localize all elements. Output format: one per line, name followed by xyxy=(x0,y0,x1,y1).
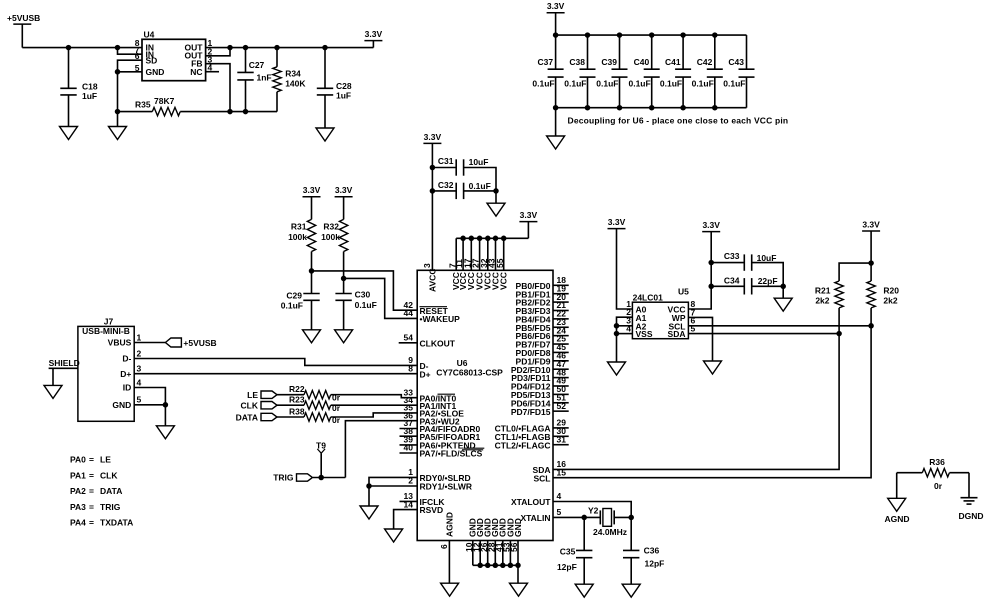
svg-text:0.1uF: 0.1uF xyxy=(660,79,682,89)
svg-text:XTALIN: XTALIN xyxy=(520,513,550,523)
svg-text:USB-MINI-B: USB-MINI-B xyxy=(82,326,130,336)
svg-text:1: 1 xyxy=(137,332,142,342)
svg-text:3.3V: 3.3V xyxy=(335,185,353,195)
svg-text:J7: J7 xyxy=(104,317,114,327)
svg-text:C30: C30 xyxy=(355,290,371,300)
svg-text:DATA: DATA xyxy=(236,412,258,422)
svg-text:1uF: 1uF xyxy=(336,90,351,100)
svg-text:GND: GND xyxy=(146,67,165,77)
svg-text:0.1uF: 0.1uF xyxy=(469,181,491,191)
svg-text:AGND: AGND xyxy=(884,514,909,524)
svg-text:PD7/FD15: PD7/FD15 xyxy=(511,407,551,417)
svg-text:4: 4 xyxy=(208,62,213,72)
svg-text:0r: 0r xyxy=(934,481,943,491)
svg-text:AVCC: AVCC xyxy=(427,269,437,292)
svg-text:6: 6 xyxy=(439,544,449,549)
svg-text:R22: R22 xyxy=(289,384,305,394)
svg-text:DATA: DATA xyxy=(100,486,122,496)
svg-text:•WAKEUP: •WAKEUP xyxy=(420,314,461,324)
svg-text:3.3V: 3.3V xyxy=(424,132,442,142)
svg-text:0.1uF: 0.1uF xyxy=(723,79,745,89)
svg-text:C31: C31 xyxy=(438,156,454,166)
svg-text:5: 5 xyxy=(557,507,562,517)
svg-text:0.1uF: 0.1uF xyxy=(532,79,554,89)
svg-text:R23: R23 xyxy=(289,395,305,405)
svg-text:VSS: VSS xyxy=(636,329,653,339)
svg-text:0.1uF: 0.1uF xyxy=(355,300,377,310)
svg-text:0.1uF: 0.1uF xyxy=(692,79,714,89)
svg-text:0.1uF: 0.1uF xyxy=(281,301,303,311)
svg-text:=: = xyxy=(89,470,94,480)
svg-text:3: 3 xyxy=(137,364,142,374)
svg-text:AGND: AGND xyxy=(444,512,454,537)
svg-text:RDY1/•SLWR: RDY1/•SLWR xyxy=(420,482,473,492)
svg-text:Decoupling for U6 - place one: Decoupling for U6 - place one close to e… xyxy=(568,116,789,126)
svg-text:CTL2/•FLAGC: CTL2/•FLAGC xyxy=(495,440,551,450)
svg-text:GND: GND xyxy=(513,518,523,537)
svg-text:C36: C36 xyxy=(644,546,660,556)
svg-text:TRIG: TRIG xyxy=(100,502,121,512)
svg-text:55: 55 xyxy=(495,258,505,268)
svg-text:TXDATA: TXDATA xyxy=(100,518,133,528)
svg-text:LE: LE xyxy=(100,455,111,465)
svg-text:3.3V: 3.3V xyxy=(547,1,565,11)
svg-text:+5VUSB: +5VUSB xyxy=(183,338,216,348)
svg-text:R35: R35 xyxy=(135,100,151,110)
svg-text:CLKOUT: CLKOUT xyxy=(420,338,456,348)
svg-text:LE: LE xyxy=(247,390,258,400)
svg-text:C40: C40 xyxy=(634,57,650,67)
svg-text:56: 56 xyxy=(509,542,519,552)
svg-text:3.3V: 3.3V xyxy=(702,220,720,230)
svg-text:C32: C32 xyxy=(438,180,454,190)
svg-text:5: 5 xyxy=(135,63,140,73)
svg-text:CY7C68013-CSP: CY7C68013-CSP xyxy=(436,368,503,378)
svg-text:78K7: 78K7 xyxy=(154,96,175,106)
svg-text:100k: 100k xyxy=(321,232,340,242)
svg-text:100k: 100k xyxy=(288,232,307,242)
svg-text:R36: R36 xyxy=(929,457,945,467)
svg-text:U4: U4 xyxy=(144,30,155,40)
svg-text:3.3V: 3.3V xyxy=(365,29,383,39)
svg-text:6: 6 xyxy=(135,51,140,61)
svg-text:GND: GND xyxy=(112,400,131,410)
svg-text:C37: C37 xyxy=(538,57,554,67)
svg-text:0r: 0r xyxy=(332,403,341,413)
svg-text:31: 31 xyxy=(557,434,567,444)
svg-text:=: = xyxy=(89,455,94,465)
svg-text:5: 5 xyxy=(137,395,142,405)
svg-text:C27: C27 xyxy=(249,60,265,70)
svg-text:C42: C42 xyxy=(697,57,713,67)
svg-text:C34: C34 xyxy=(724,276,740,286)
svg-text:U6: U6 xyxy=(457,358,468,368)
svg-text:CLK: CLK xyxy=(241,401,259,411)
svg-text:PA3: PA3 xyxy=(70,502,86,512)
svg-text:PA1: PA1 xyxy=(70,470,86,480)
svg-text:C33: C33 xyxy=(724,251,740,261)
svg-text:C35: C35 xyxy=(560,547,576,557)
svg-text:SD: SD xyxy=(146,56,158,66)
svg-text:CLK: CLK xyxy=(100,470,118,480)
svg-text:Y2: Y2 xyxy=(588,506,599,516)
svg-text:+5VUSB: +5VUSB xyxy=(7,13,40,23)
svg-text:140K: 140K xyxy=(285,79,306,89)
svg-text:C38: C38 xyxy=(569,57,585,67)
svg-text:C39: C39 xyxy=(601,57,617,67)
svg-text:10uF: 10uF xyxy=(757,253,777,263)
svg-text:3.3V: 3.3V xyxy=(520,210,538,220)
svg-text:0.1uF: 0.1uF xyxy=(564,79,586,89)
svg-text:=: = xyxy=(89,486,94,496)
svg-text:12pF: 12pF xyxy=(557,562,577,572)
svg-text:=: = xyxy=(89,502,94,512)
svg-text:2: 2 xyxy=(137,348,142,358)
svg-text:52: 52 xyxy=(557,401,567,411)
svg-text:R38: R38 xyxy=(289,407,305,417)
svg-text:0r: 0r xyxy=(332,393,341,403)
svg-text:2k2: 2k2 xyxy=(883,296,897,306)
svg-text:C43: C43 xyxy=(728,57,744,67)
svg-text:4: 4 xyxy=(557,491,562,501)
svg-text:12pF: 12pF xyxy=(645,559,665,569)
svg-text:C18: C18 xyxy=(82,82,98,92)
svg-text:PA0: PA0 xyxy=(70,455,86,465)
svg-text:RSVD: RSVD xyxy=(420,505,444,515)
svg-text:=: = xyxy=(89,518,94,528)
svg-text:R32: R32 xyxy=(323,222,339,232)
svg-text:SHIELD: SHIELD xyxy=(49,358,80,368)
svg-text:22pF: 22pF xyxy=(758,276,778,286)
svg-text:C41: C41 xyxy=(665,57,681,67)
svg-text:0.1uF: 0.1uF xyxy=(596,79,618,89)
svg-text:VBUS: VBUS xyxy=(108,338,132,348)
svg-text:DGND: DGND xyxy=(958,511,983,521)
svg-text:1uF: 1uF xyxy=(82,91,97,101)
svg-text:T9: T9 xyxy=(316,441,326,451)
svg-text:NC: NC xyxy=(190,67,202,77)
svg-text:4: 4 xyxy=(137,377,142,387)
svg-text:10uF: 10uF xyxy=(469,157,489,167)
svg-text:3.3V: 3.3V xyxy=(608,217,626,227)
svg-text:54: 54 xyxy=(404,333,414,343)
svg-text:SCL: SCL xyxy=(534,473,551,483)
svg-text:PA2: PA2 xyxy=(70,486,86,496)
svg-text:2k2: 2k2 xyxy=(815,296,829,306)
svg-text:XTALOUT: XTALOUT xyxy=(511,497,551,507)
svg-text:R31: R31 xyxy=(291,222,307,232)
svg-text:PA4: PA4 xyxy=(70,518,86,528)
svg-text:24.0MHz: 24.0MHz xyxy=(593,527,627,537)
svg-text:3: 3 xyxy=(422,263,432,268)
svg-text:ID: ID xyxy=(123,383,132,393)
svg-text:3.3V: 3.3V xyxy=(862,220,880,230)
svg-text:U5: U5 xyxy=(678,287,689,297)
svg-text:SDA: SDA xyxy=(668,329,686,339)
svg-text:TRIG: TRIG xyxy=(273,473,294,483)
svg-text:1nF: 1nF xyxy=(257,73,272,83)
svg-text:R20: R20 xyxy=(883,286,899,296)
svg-text:D+: D+ xyxy=(120,369,131,379)
svg-text:0r: 0r xyxy=(332,415,341,425)
svg-text:R34: R34 xyxy=(285,69,301,79)
svg-text:VCC: VCC xyxy=(499,272,509,290)
svg-text:C29: C29 xyxy=(286,290,302,300)
svg-text:0.1uF: 0.1uF xyxy=(628,79,650,89)
svg-text:3.3V: 3.3V xyxy=(303,185,321,195)
svg-text:D-: D- xyxy=(122,354,131,364)
svg-text:24LC01: 24LC01 xyxy=(633,293,664,303)
svg-text:D+: D+ xyxy=(420,369,431,379)
svg-text:R21: R21 xyxy=(815,286,831,296)
